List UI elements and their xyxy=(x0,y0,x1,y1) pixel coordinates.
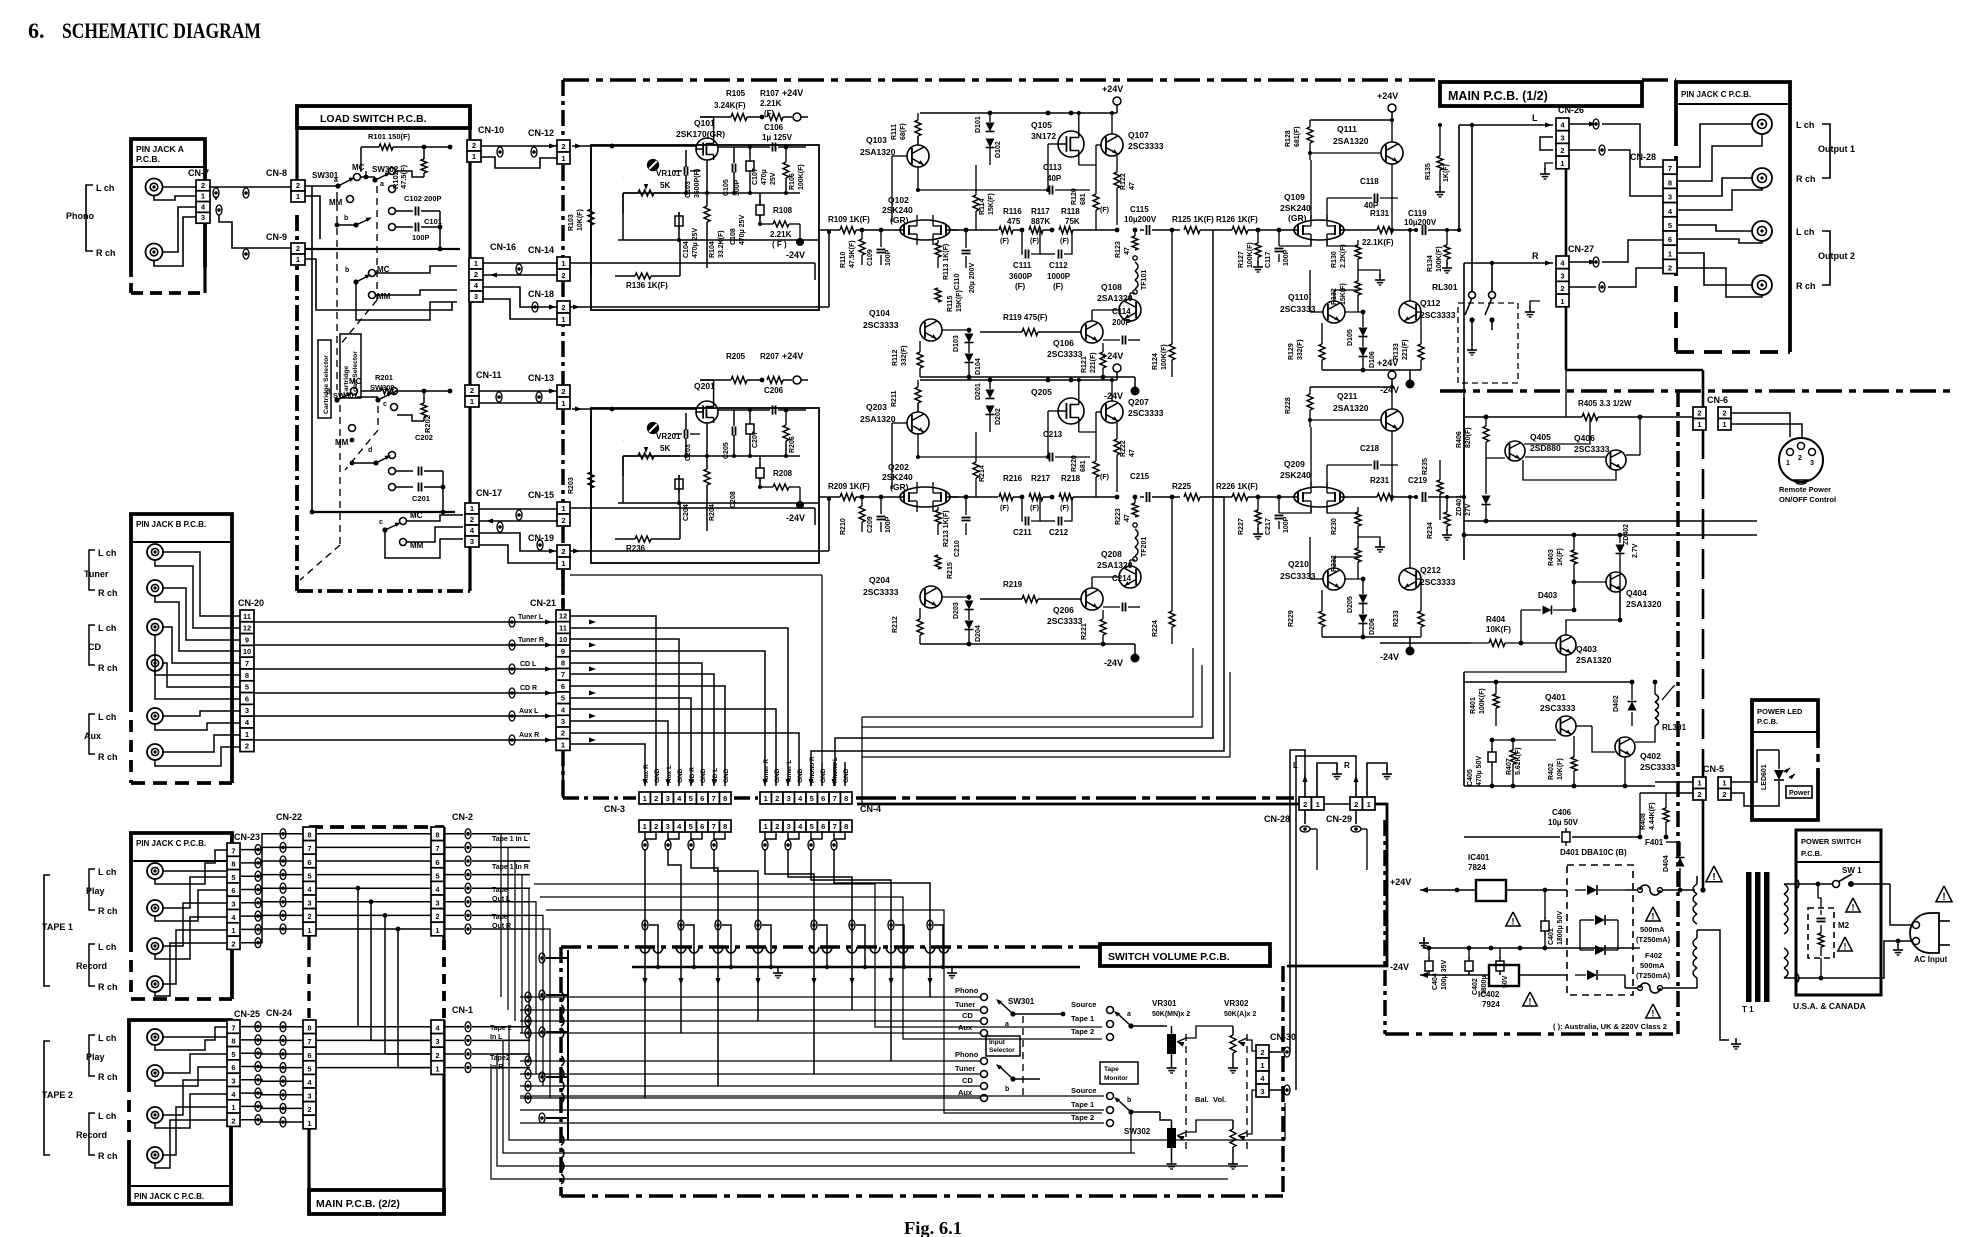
svg-text:3: 3 xyxy=(435,899,439,908)
svg-text:332(F): 332(F) xyxy=(1297,339,1304,360)
wire Tuner R run xyxy=(254,644,557,646)
capacitor C111 xyxy=(1025,250,1027,259)
wire L net from volume xyxy=(1290,750,1305,1052)
svg-text:1: 1 xyxy=(1668,249,1672,258)
wire +24V rail out 2 xyxy=(1310,386,1392,388)
wire down from beads xyxy=(1310,828,1317,830)
wires CN-2 right side with labels xyxy=(444,833,464,835)
wire CN-17 pin4 to CN-19 pin2 xyxy=(479,533,557,551)
svg-text:(F): (F) xyxy=(1000,238,1009,245)
svg-text:7: 7 xyxy=(231,846,235,855)
stage box Q101 xyxy=(591,145,819,310)
wire +24V rail stage2 2 xyxy=(920,379,1117,381)
block MAIN P.C.B. (2/2) xyxy=(307,827,310,940)
svg-text:10µ200V: 10µ200V xyxy=(1404,218,1437,227)
bottom rail -24V 2 xyxy=(920,643,1135,645)
svg-text:3: 3 xyxy=(666,822,670,831)
label Power box xyxy=(1786,786,1812,798)
svg-text:PIN JACK A: PIN JACK A xyxy=(136,144,184,154)
svg-text:3: 3 xyxy=(1810,460,1814,467)
svg-text:2: 2 xyxy=(307,912,311,921)
warning M2 xyxy=(1838,937,1852,951)
svg-text:b: b xyxy=(344,215,348,222)
svg-text:2: 2 xyxy=(307,1105,311,1114)
wires tape loop horizontals xyxy=(534,884,1102,1027)
svg-text:Input: Input xyxy=(989,1039,1006,1046)
svg-text:2SK240: 2SK240 xyxy=(1280,470,1311,480)
bead near CN-9 xyxy=(243,249,249,259)
svg-text:2.7V: 2.7V xyxy=(1632,543,1639,558)
svg-text:1: 1 xyxy=(296,255,300,264)
beads under CN-28 CN-29 xyxy=(1300,826,1310,832)
svg-text:2: 2 xyxy=(201,181,205,190)
wires sv mid horizontals xyxy=(520,1095,1104,1097)
svg-text:8: 8 xyxy=(245,671,249,680)
svg-text:Tuner R: Tuner R xyxy=(763,759,770,783)
svg-text:C210: C210 xyxy=(954,540,961,557)
svg-text:RL301: RL301 xyxy=(1432,282,1458,292)
ground R127 xyxy=(1257,261,1259,267)
svg-text:2: 2 xyxy=(1722,790,1726,799)
svg-text:CN-28: CN-28 xyxy=(1630,152,1656,162)
svg-text:!: ! xyxy=(1529,996,1532,1006)
svg-text:2: 2 xyxy=(654,794,658,803)
wire CN-14 pin1 into stage xyxy=(570,262,815,264)
gnd hook CN-29 pin1 xyxy=(1367,763,1387,797)
wires CN-1 right side xyxy=(444,1026,464,1028)
svg-text:2SA1320: 2SA1320 xyxy=(1626,599,1662,609)
svg-text:5: 5 xyxy=(1668,221,1672,230)
wire bottom switch xyxy=(1812,977,1821,979)
svg-text:C204: C204 xyxy=(683,504,690,521)
svg-text:8: 8 xyxy=(231,1037,235,1046)
wire CN-10 pin1 to CN-12 pin1 xyxy=(481,157,557,168)
wire C107 legs xyxy=(749,410,751,420)
wire Q109 source left xyxy=(1279,507,1311,513)
svg-text:Q107: Q107 xyxy=(1128,130,1149,140)
wire CN-9 pin1 xyxy=(305,259,452,310)
svg-text:2: 2 xyxy=(1260,1048,1264,1057)
wire Q103 base xyxy=(892,422,907,424)
svg-text:C218: C218 xyxy=(1360,444,1380,453)
wire gnd return L xyxy=(862,648,1193,717)
wire Q110 collector xyxy=(1333,290,1335,301)
transistor Q406 xyxy=(1606,450,1626,470)
svg-text:3: 3 xyxy=(787,794,791,803)
dual fet Q202 xyxy=(900,487,950,507)
svg-text:GND: GND xyxy=(797,768,804,783)
svg-text:(GR): (GR) xyxy=(890,482,909,492)
AC plug xyxy=(1913,922,1920,929)
svg-text:SW301: SW301 xyxy=(1008,997,1035,1006)
svg-text:C110: C110 xyxy=(954,274,961,290)
svg-text:Q401: Q401 xyxy=(1545,692,1566,702)
dashed link input selector xyxy=(1022,1016,1024,1098)
svg-text:10K(F): 10K(F) xyxy=(1557,758,1564,780)
svg-text:Tuner: Tuner xyxy=(955,1000,975,1009)
svg-text:PIN JACK C P.C.B.: PIN JACK C P.C.B. xyxy=(1681,90,1751,99)
svg-text:CN-6: CN-6 xyxy=(1707,395,1728,405)
dashed links VR pots xyxy=(1185,1034,1187,1152)
svg-text:8: 8 xyxy=(561,659,565,668)
svg-text:8: 8 xyxy=(307,1024,311,1033)
svg-text:2: 2 xyxy=(561,387,565,396)
wire lower bus xyxy=(312,511,455,513)
ground sym under CN-4 bus xyxy=(951,967,953,973)
svg-text:820(F): 820(F) xyxy=(1465,427,1472,448)
wire Q103 base xyxy=(892,155,907,157)
wire gnd pin join xyxy=(834,832,845,839)
wire Q103 emitter xyxy=(917,136,919,145)
wire CN-7 pin4 to CN-9 xyxy=(219,215,291,248)
wire Q105 drain to Q107 xyxy=(1078,157,1080,165)
svg-text:1000P: 1000P xyxy=(1047,272,1071,281)
svg-text:(F): (F) xyxy=(1060,238,1069,245)
svg-text:1µ 125V: 1µ 125V xyxy=(762,133,793,142)
svg-text:D106: D106 xyxy=(1369,351,1376,368)
svg-text:7: 7 xyxy=(245,659,249,668)
svg-text:Phono R: Phono R xyxy=(809,756,816,783)
svg-text:10: 10 xyxy=(243,647,251,656)
svg-text:1: 1 xyxy=(435,926,439,935)
svg-text:8: 8 xyxy=(844,794,848,803)
svg-text:15K(F): 15K(F) xyxy=(988,193,995,215)
svg-text:!: ! xyxy=(1512,916,1515,926)
svg-text:3: 3 xyxy=(561,717,565,726)
svg-text:CN-30: CN-30 xyxy=(1270,1032,1296,1042)
svg-text:R107: R107 xyxy=(760,89,780,98)
wire CN-21 row2 gnd xyxy=(570,733,799,786)
svg-text:6: 6 xyxy=(1668,235,1672,244)
svg-text:9: 9 xyxy=(245,635,249,644)
svg-text:L: L xyxy=(1532,113,1538,123)
wire Q109 drain left xyxy=(1310,160,1312,220)
svg-text:Q201: Q201 xyxy=(694,381,715,391)
block PIN JACK C P.C.B. top right xyxy=(1676,82,1790,352)
svg-text:1: 1 xyxy=(296,192,300,201)
beads CN-26 outputs xyxy=(1593,119,1599,129)
svg-text:6: 6 xyxy=(307,858,311,867)
svg-text:C108: C108 xyxy=(730,228,737,245)
wires CN-25 to CN-24 xyxy=(240,1026,303,1028)
svg-text:Fig. 6.1: Fig. 6.1 xyxy=(904,1218,962,1237)
wire CN-16 pin2 to CN-14 pin2 xyxy=(483,274,557,276)
wire relay coil net xyxy=(1619,570,1621,620)
svg-text:Q112: Q112 xyxy=(1420,298,1441,308)
svg-text:Aux L: Aux L xyxy=(519,708,539,715)
wire CD R run xyxy=(254,692,557,694)
wire CN-15 pin1 into stage xyxy=(570,507,815,509)
wire signal pin to bead xyxy=(764,832,766,841)
wire +24 feed line xyxy=(1464,416,1530,418)
svg-text:2SA1320: 2SA1320 xyxy=(1333,403,1369,413)
svg-text:5: 5 xyxy=(810,822,814,831)
svg-text:100K(F): 100K(F) xyxy=(798,164,805,190)
wire drop into switch volume xyxy=(788,849,852,1010)
svg-text:3: 3 xyxy=(307,1092,311,1101)
svg-text:c: c xyxy=(383,401,387,408)
wire gnd pin join xyxy=(691,832,702,839)
svg-text:R: R xyxy=(1532,251,1539,261)
jack Tuner R xyxy=(147,580,163,596)
wire relay to output rail L xyxy=(1471,125,1473,291)
svg-text:100K(F): 100K(F) xyxy=(1436,246,1443,272)
wire CN-2 run to bundle xyxy=(530,929,550,1098)
wires CN-24 to CN-1 rows xyxy=(316,1026,431,1028)
svg-text:M2: M2 xyxy=(1838,921,1850,930)
svg-text:7: 7 xyxy=(231,1023,235,1032)
wire +24V rail stage2 1 xyxy=(920,112,1117,114)
jack Tape1 Play L xyxy=(147,863,163,879)
block SWITCH VOLUME P.C.B. boundary xyxy=(561,945,1100,949)
wire D404 top to R408 xyxy=(1666,841,1680,843)
jack Tuner L xyxy=(147,544,163,560)
remote power DIN connector xyxy=(1779,438,1823,482)
wire CN-16 pin4 to CN-18 pin2 xyxy=(483,287,557,307)
svg-text:CD: CD xyxy=(962,1011,973,1020)
ground sym under CN-3 bus xyxy=(777,967,779,973)
svg-text:R231: R231 xyxy=(1370,476,1390,485)
wire CN-2 run to bundle xyxy=(529,888,530,1061)
svg-text:R218: R218 xyxy=(1061,474,1081,483)
jack Output2 L xyxy=(1752,221,1772,241)
wire sw301a arm out xyxy=(1013,1013,1063,1015)
svg-text:R403: R403 xyxy=(1548,549,1555,566)
wire C108 legs xyxy=(759,193,761,205)
svg-text:D203: D203 xyxy=(953,602,960,619)
svg-text:221(F): 221(F) xyxy=(1090,352,1097,373)
jack Tape2 Rec R xyxy=(147,1147,163,1163)
feedback box Q201 xyxy=(622,440,624,442)
wire Q107 emitter xyxy=(1111,380,1113,401)
svg-text:5: 5 xyxy=(561,694,565,703)
svg-text:Phono: Phono xyxy=(955,986,979,995)
svg-text:1: 1 xyxy=(561,259,565,268)
svg-text:2SA1320: 2SA1320 xyxy=(1097,560,1133,570)
main rail 1 xyxy=(950,229,998,231)
svg-text:T 1: T 1 xyxy=(1742,1005,1754,1014)
svg-text:100P: 100P xyxy=(1283,249,1290,266)
svg-text:R108: R108 xyxy=(773,206,793,215)
svg-text:12: 12 xyxy=(559,612,567,621)
svg-text:CN-7: CN-7 xyxy=(188,168,209,178)
wire Tuner L run xyxy=(254,621,557,623)
wire CN-21 row1 to CN-3 pin1 xyxy=(570,744,645,786)
svg-text:R ch: R ch xyxy=(98,663,118,673)
ground CN-27 xyxy=(1530,301,1540,308)
svg-text:POWER LED: POWER LED xyxy=(1757,707,1803,716)
capacitor C201 xyxy=(389,484,396,491)
wire CN-2 row across xyxy=(316,928,431,930)
svg-text:R207: R207 xyxy=(760,352,780,361)
bead near CN-8 xyxy=(243,188,249,198)
svg-text:2: 2 xyxy=(231,939,235,948)
wire elbow to CN-1 row xyxy=(358,1026,431,1028)
wire inner bottom rail xyxy=(618,502,819,504)
bottom rail out 2 xyxy=(1322,636,1421,638)
ground CN-26 xyxy=(1545,163,1553,170)
svg-text:1: 1 xyxy=(561,315,565,324)
boundary crossing loops on switch volume top edge xyxy=(640,947,650,953)
svg-text:CD R: CD R xyxy=(689,767,696,783)
wire Q103 collector xyxy=(917,167,919,190)
svg-text:1: 1 xyxy=(561,504,565,513)
svg-text:MAIN P.C.B. (1/2): MAIN P.C.B. (1/2) xyxy=(1448,89,1548,103)
svg-text:Tape: Tape xyxy=(1104,1066,1119,1073)
wire vr101 left leg xyxy=(622,456,624,503)
diode D101 xyxy=(986,123,995,132)
svg-text:R213 1K(F): R213 1K(F) xyxy=(943,510,950,547)
svg-text:PIN JACK C P.C.B.: PIN JACK C P.C.B. xyxy=(136,839,206,848)
wire CN-8 to SW301 xyxy=(305,185,338,187)
svg-text:5: 5 xyxy=(689,794,693,803)
svg-text:D101: D101 xyxy=(975,116,982,133)
dashed link lower xyxy=(339,405,341,545)
wire lower contacts to CN-16 xyxy=(375,266,457,273)
branch to gnd bus xyxy=(818,925,827,967)
svg-text:GND: GND xyxy=(677,768,684,783)
svg-text:CN-26: CN-26 xyxy=(1558,105,1584,115)
ground VR302 lower xyxy=(1232,1158,1234,1164)
svg-text:Tape 2: Tape 2 xyxy=(1071,1113,1094,1122)
branch to gnd bus xyxy=(895,925,904,967)
wire Q109 source left xyxy=(1279,240,1311,246)
wire drop into switch volume xyxy=(811,849,891,1061)
block MAIN P.C.B. (1/2) top border xyxy=(563,78,1437,82)
transistor Q110 xyxy=(1323,301,1345,323)
wire Q112 base xyxy=(1416,311,1421,313)
contact sw302 b upper xyxy=(389,186,396,193)
wire drain Q201 up xyxy=(713,380,715,401)
svg-text:1: 1 xyxy=(1260,1061,1264,1070)
svg-text:6: 6 xyxy=(435,858,439,867)
svg-text:(F): (F) xyxy=(1100,474,1109,481)
svg-text:C101: C101 xyxy=(424,217,442,226)
wire Aux L run xyxy=(254,715,557,717)
wire elbow to CN-1 row xyxy=(398,1067,431,1069)
svg-text:R127: R127 xyxy=(1238,251,1245,268)
wire Q112 collector xyxy=(1409,230,1411,301)
svg-text:CN-8: CN-8 xyxy=(266,168,287,178)
transistor Q204 xyxy=(920,586,942,608)
transistor Q105 mosfet xyxy=(1058,131,1084,157)
wire Q112 collector xyxy=(1409,497,1411,568)
svg-text:C405: C405 xyxy=(1467,769,1474,786)
wire +24V rail out 1 xyxy=(1310,119,1392,121)
svg-text:Tuner: Tuner xyxy=(955,1064,975,1073)
svg-text:6: 6 xyxy=(561,682,565,691)
svg-text:47.5K(F): 47.5K(F) xyxy=(849,240,856,268)
wire CD L run xyxy=(254,668,557,670)
svg-text:8: 8 xyxy=(844,822,848,831)
svg-text:3: 3 xyxy=(231,900,235,909)
wire Q110 collector xyxy=(1333,557,1335,568)
jack Aux R xyxy=(147,744,163,760)
svg-text:+24V: +24V xyxy=(1102,351,1123,361)
svg-text:1: 1 xyxy=(764,794,768,803)
jack Output1 R xyxy=(1752,168,1772,188)
svg-text:2SC3333: 2SC3333 xyxy=(1640,762,1676,772)
wire gate Q201 xyxy=(572,408,696,410)
svg-text:475: 475 xyxy=(1007,217,1021,226)
svg-text:R129: R129 xyxy=(1288,343,1295,360)
svg-text:8: 8 xyxy=(723,794,727,803)
svg-text:2: 2 xyxy=(472,141,476,150)
svg-text:CN-14: CN-14 xyxy=(528,245,554,255)
svg-text:47: 47 xyxy=(1129,449,1136,457)
svg-text:CN-10: CN-10 xyxy=(478,125,504,135)
svg-text:CN-3: CN-3 xyxy=(604,804,625,814)
svg-text:Tape 1 In L: Tape 1 In L xyxy=(492,836,529,843)
svg-text:6: 6 xyxy=(821,822,825,831)
svg-text:1: 1 xyxy=(435,1064,439,1073)
svg-text:R216: R216 xyxy=(1003,474,1023,483)
transistor Q206 xyxy=(1081,588,1103,610)
wire gnd pin join xyxy=(668,832,679,839)
svg-text:Q106: Q106 xyxy=(1053,338,1074,348)
svg-text:Aux: Aux xyxy=(958,1023,973,1032)
svg-text:R ch: R ch xyxy=(1796,281,1816,291)
svg-text:Phono: Phono xyxy=(955,1050,979,1059)
svg-text:CN-22: CN-22 xyxy=(276,812,302,822)
svg-text:VR302: VR302 xyxy=(1224,999,1249,1008)
gnd mid 2 xyxy=(1358,537,1380,543)
svg-text:Q405: Q405 xyxy=(1530,432,1551,442)
svg-text:Bal.: Bal. xyxy=(1195,1095,1209,1104)
svg-text:2.21K: 2.21K xyxy=(770,230,792,239)
svg-text:R109 1K(F): R109 1K(F) xyxy=(828,215,870,224)
svg-text:Q207: Q207 xyxy=(1128,397,1149,407)
svg-text:47: 47 xyxy=(1129,182,1136,190)
svg-text:100P: 100P xyxy=(885,516,892,533)
svg-text:2: 2 xyxy=(435,912,439,921)
wire CN-21 row3 to CN-3 pin3 xyxy=(570,721,668,786)
svg-text:R ch: R ch xyxy=(98,906,118,916)
svg-text:MM: MM xyxy=(329,198,343,207)
branch to gnd bus xyxy=(762,925,771,967)
gnd hook CN-28 pin1 xyxy=(1317,763,1337,797)
main pcb border right of relay xyxy=(1440,389,1950,393)
svg-text:R402: R402 xyxy=(1548,763,1555,780)
svg-text:1: 1 xyxy=(643,794,647,803)
wire between CN-28 CN-29 xyxy=(1324,803,1350,805)
svg-text:GND: GND xyxy=(723,768,730,783)
svg-text:7: 7 xyxy=(1668,164,1672,173)
capacitor C212 xyxy=(1058,517,1060,526)
transistor Q401 xyxy=(1556,716,1576,736)
svg-text:R212: R212 xyxy=(892,616,899,633)
warning transformer xyxy=(1706,866,1722,882)
wire Q111 collector xyxy=(1391,431,1393,497)
wire gnd pin join xyxy=(811,832,822,839)
svg-text:2SC3333: 2SC3333 xyxy=(863,320,899,330)
label box Input Selector xyxy=(986,1036,1020,1056)
jack Phono R (PIN JACK A) xyxy=(146,244,163,261)
svg-text:R128: R128 xyxy=(1285,130,1292,147)
transistor Q203 xyxy=(907,412,929,434)
svg-text:2: 2 xyxy=(561,142,565,151)
svg-text:3: 3 xyxy=(307,899,311,908)
wire bus CN-9 row xyxy=(305,248,460,250)
svg-text:2: 2 xyxy=(245,742,249,751)
branch to gnd bus xyxy=(856,925,865,967)
svg-text:In L: In L xyxy=(490,1034,503,1041)
wires into left edge of switch volume xyxy=(520,996,980,998)
svg-text:R106: R106 xyxy=(789,173,796,190)
svg-text:2SK170(GR): 2SK170(GR) xyxy=(676,129,725,139)
wire CN-21 row12 gnd xyxy=(570,616,656,786)
svg-text:40P: 40P xyxy=(1047,174,1062,183)
